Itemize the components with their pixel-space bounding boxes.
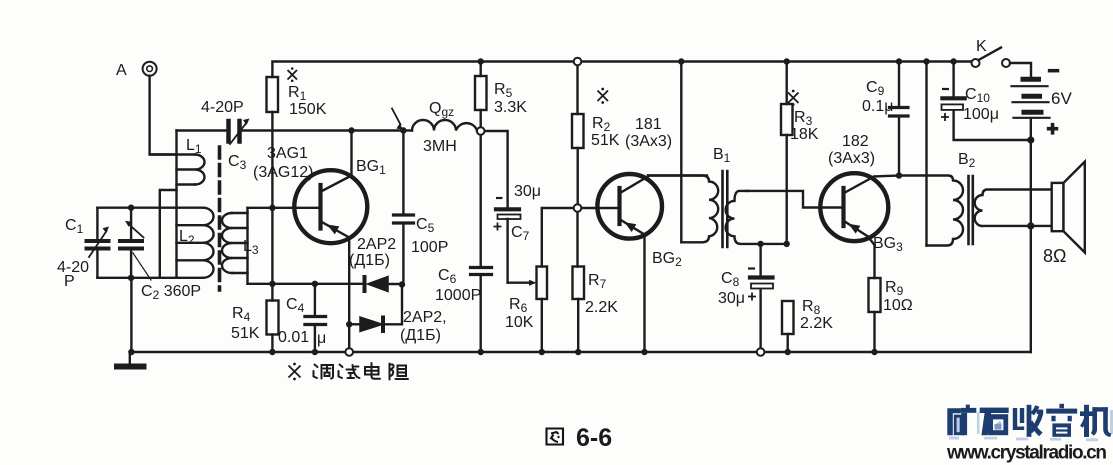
svg-text:30μ: 30μ [718,290,745,307]
hanzi 音 [1059,404,1064,408]
inductor choke Qgz 3MH [403,129,412,131]
svg-text:L3: L3 [243,238,259,257]
svg-text:4-20P: 4-20P [201,99,244,116]
transformer B1 secondary [726,191,787,244]
svg-text:100P: 100P [411,239,448,256]
svg-text:BG3: BG3 [873,235,903,254]
junction R5 top rail [478,58,484,64]
mark of footnote [289,366,301,378]
wire R1 to base node to R4 [271,112,273,301]
junction D2 anode emitter [346,321,352,327]
folder glyph inside 石 [995,424,1002,430]
resistor R3 18K [781,104,793,135]
capacitor C9 0.1u [898,62,900,176]
transformer B1 primary [648,176,718,243]
junction C8 top [757,241,763,247]
svg-text:2.2K: 2.2K [800,315,833,332]
junction C9 top rail [896,58,902,64]
wire switch to battery [1010,63,1031,77]
junction R8 ground [785,349,791,355]
wiper arrow into R6 [508,282,531,284]
plus/minus signs [494,61,1060,301]
svg-text:181: 181 [635,116,662,133]
resistor R5 3.3K [475,76,487,110]
svg-text:150K: 150K [289,101,327,118]
wire tank to ground [130,278,132,352]
svg-text:C1: C1 [65,217,84,236]
hanzi 收 [1013,408,1017,430]
junction C10 top rail [950,58,956,64]
svg-text:6-6: 6-6 [576,424,612,452]
svg-text:10K: 10K [505,314,534,331]
junction BG1 collector [348,127,354,133]
ground [129,352,131,364]
svg-text:(3Ax3): (3Ax3) [625,133,672,150]
resistor R6 10K [537,267,548,300]
svg-text:30μ: 30μ [514,183,541,200]
antenna A [143,62,157,76]
wire bottom ground rail [130,351,1031,353]
capacitor C5 100P [402,131,404,285]
svg-text:C3: C3 [228,153,247,172]
junction C4 top [312,281,318,287]
resistor R8 2.2K [782,301,794,334]
svg-text:18K: 18K [790,126,819,143]
svg-text:2AP2,: 2AP2, [403,309,447,326]
svg-text:C2 360P: C2 360P [141,283,201,302]
hanzi 矿 [947,408,961,435]
junction R4 ground [269,349,275,355]
node BG2 base [574,204,582,212]
svg-text:K: K [976,38,987,55]
junction R4 top [269,281,275,287]
caption hanzi 图 6-6 [547,429,564,445]
svg-text:www.crystalradio.cn: www.crystalradio.cn [946,443,1107,464]
footnote hanzi 调试电阻 (drawn strokes) [314,363,409,380]
svg-text:(3Ax3): (3Ax3) [828,150,875,167]
svg-text:8Ω: 8Ω [1043,246,1066,266]
junction C6 ground [478,349,484,355]
light echoes [949,410,1113,441]
junction C10 battery positive [1027,136,1034,143]
junction R6 ground [539,349,545,355]
node C8 ground [757,348,765,356]
svg-text:A: A [116,62,127,79]
ferrite core (dashed) [218,147,222,290]
white insets [957,418,1068,434]
junction BG3 collector C9 [896,172,902,178]
component reference and value labels [57,38,1072,347]
wire antenna lead [150,76,177,155]
hanzi 调 [314,365,318,379]
svg-text:182: 182 [842,133,869,150]
transformer B2 core [969,176,973,244]
svg-text:(Д1Б): (Д1Б) [400,327,441,344]
svg-text:C5: C5 [416,216,435,235]
wire node line L3/R4/C4 (detector return) [248,283,365,285]
svg-text:(Д1Б): (Д1Б) [349,252,390,269]
transistor BG2 [578,207,618,209]
diode D2 2AP2 [349,323,360,325]
capacitor C4 0.01u [314,284,316,352]
hanzi 石 [980,408,1009,413]
svg-text:R6: R6 [509,296,528,315]
svg-text:C4: C4 [286,296,305,315]
svg-text:Qgz: Qgz [429,100,454,119]
svg-text:0.1μ: 0.1μ [862,98,893,115]
svg-text:10Ω: 10Ω [883,297,913,314]
node BG1 emitter ground [345,348,353,356]
reference marks (jp/cn reference mark) [288,67,799,380]
svg-text:100μ: 100μ [963,106,999,123]
capacitor C3 (4-20P trimmer) [229,121,240,142]
svg-text:B2: B2 [958,151,976,170]
svg-text:C6: C6 [438,267,457,286]
node choke R5 C6 C7 [477,127,485,135]
resistor R7 2.2K [573,267,585,300]
adjust arrow at choke node [392,109,401,125]
svg-text:(3AG12): (3AG12) [253,164,313,181]
svg-text:C10: C10 [965,86,990,105]
svg-text:−: − [1048,61,1059,82]
wire L1 return to tank bottom [160,190,177,278]
svg-text:BG1: BG1 [356,158,386,177]
resistor R1 150K [267,77,279,112]
hanzi 机 [1080,411,1093,416]
mark above R1 [288,70,298,80]
node R2 rail terminal [574,58,582,66]
diode D1 2AP2 [363,277,367,291]
svg-text:6V: 6V [1051,89,1072,108]
leader line C2 label [133,253,151,280]
resistor R9 10ohm [869,278,881,312]
mark above R3 [788,93,799,104]
battery 6V [1023,79,1041,112]
svg-text:3MH: 3MH [423,138,457,155]
transformer B2 primary [899,176,963,246]
hanzi 阻 [390,364,394,380]
junction tank ground [128,349,134,355]
electrolytic C10 100u [954,62,1031,141]
svg-text:1000P: 1000P [435,287,481,304]
capacitor C6 1000P [480,135,482,352]
hanzi 电 [372,363,381,379]
inductor L1 [150,155,195,185]
svg-text:2.2K: 2.2K [585,299,618,316]
junction C5 top [400,127,406,133]
svg-text:L1: L1 [186,137,202,156]
junction R3 R8 node [784,241,790,247]
svg-text:+: + [1047,119,1058,140]
wire BG3 base line [746,191,842,208]
wire BG1 base line [248,207,319,209]
junction C4 ground [312,349,318,355]
svg-text:R9: R9 [885,279,904,298]
junction BG2 emitter ground [641,349,647,355]
svg-text:P: P [64,273,75,290]
svg-text:2AP2: 2AP2 [357,236,396,253]
hanzi 试 [339,365,343,379]
transistor BG3 [820,173,888,241]
wire tank vertical spine [175,131,177,278]
junction R9 ground [871,349,877,355]
junction R7 ground [575,349,581,355]
transformer B2 secondary [975,190,1052,227]
resistor R4 51K [267,301,279,335]
junction C2 tank bottom [128,275,134,281]
transformer B1 core [723,171,728,247]
svg-text:51K: 51K [231,325,260,342]
watermark 矿石收音机 www.crystalradio.cn [946,404,1113,464]
svg-text:BG2: BG2 [652,250,682,269]
switch K [972,59,980,67]
svg-text:R4: R4 [232,305,251,324]
svg-text:C7: C7 [511,224,530,243]
svg-text:C8: C8 [721,270,740,289]
svg-text:L2: L2 [179,228,195,247]
junction R3 top rail [784,58,790,64]
svg-text:R5: R5 [494,81,513,100]
wire C3 line (to R1 node and BG1 collector line) [177,129,404,131]
junction B2 secondary battery [1027,222,1034,229]
svg-text:R7: R7 [588,272,607,291]
wire tank bottom line [97,277,176,279]
svg-text:C9: C9 [866,79,885,98]
wire battery positive lead [1030,119,1032,352]
svg-text:51K: 51K [591,132,620,149]
speaker 8ohm [1052,183,1064,231]
inductor L3 [246,208,248,284]
resistor R2 51K [572,114,584,148]
wire tank top line [97,206,176,208]
svg-text:μ: μ [317,330,326,347]
electrolytic C7 30u [481,131,508,283]
svg-text:0.01: 0.01 [278,329,309,346]
inductor L2 [177,208,204,278]
svg-text:B1: B1 [713,146,731,165]
svg-text:3AG1: 3AG1 [267,145,308,162]
mark above R2 [598,91,609,102]
electrolytic C8 30u [759,244,761,352]
capacitor C1 (4-20P variable) [96,208,98,278]
capacitor C2 (360P variable) [130,208,132,278]
junction D1 anode C5 [399,281,405,287]
junction BG1 base bias [269,205,275,211]
junction B1 primary rail [678,58,684,64]
wire top supply rail [272,62,971,78]
transistor BG1 [294,170,367,243]
svg-text:3.3K: 3.3K [494,99,527,116]
junction C2 tank top [128,205,134,211]
junction B2 primary rail [923,58,929,64]
